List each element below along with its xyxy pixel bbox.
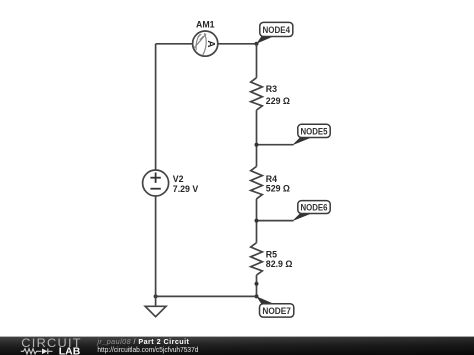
svg-text:NODE6: NODE6 (301, 202, 328, 212)
label V2 value (173, 174, 199, 194)
svg-text:R4: R4 (266, 174, 277, 184)
junction dot NODE4 (255, 42, 259, 46)
wire top-right horizontal (218, 43, 257, 45)
node NODE7 flag (256, 296, 294, 317)
node NODE5 flag (257, 124, 331, 145)
junction dot NODE6 (255, 219, 259, 223)
label R5 value (266, 249, 293, 269)
resistor R5 (251, 243, 263, 275)
wire right vertical above R3 (256, 44, 258, 78)
wire right vertical below R3 (256, 110, 258, 166)
wire bottom horizontal (156, 295, 257, 297)
svg-text:529 Ω: 529 Ω (266, 184, 290, 194)
ammeter AM1 (193, 31, 218, 56)
junction dot R5 bottom terminal (255, 282, 259, 286)
svg-text:7.29 V: 7.29 V (173, 184, 199, 194)
svg-text:jr_paul08 / Part 2 Circuit: jr_paul08 / Part 2 Circuit (96, 337, 189, 346)
svg-text:AM1: AM1 (196, 19, 215, 29)
svg-text:NODE7: NODE7 (262, 306, 291, 316)
resistor R3 (251, 78, 263, 110)
svg-text:NODE4: NODE4 (263, 25, 291, 35)
junction dot NODE5 (255, 143, 259, 147)
svg-text:NODE5: NODE5 (301, 126, 328, 136)
node NODE4 flag (256, 22, 293, 43)
resistor R4 (251, 166, 263, 198)
logo resistor-diode glyph (21, 349, 53, 355)
svg-text:A: A (205, 40, 216, 47)
footer bar (0, 337, 474, 355)
svg-text:R3: R3 (266, 84, 277, 94)
wire right vertical below R5 (256, 275, 258, 296)
voltage source V2 (143, 170, 169, 196)
svg-text:V2: V2 (173, 174, 184, 184)
node NODE6 flag (257, 201, 331, 222)
label R3 value (266, 84, 290, 106)
wire right vertical below R4 (256, 199, 258, 243)
wire left vertical below V2 (155, 196, 157, 296)
ground (145, 296, 166, 316)
svg-text:R5: R5 (266, 249, 277, 259)
svg-text:229 Ω: 229 Ω (266, 96, 290, 106)
wire top-left horizontal (156, 43, 193, 45)
junction dot NODE7 corner (255, 294, 259, 298)
svg-text:LAB: LAB (59, 346, 81, 355)
svg-text:http://circuitlab.com/c5jcfvuh: http://circuitlab.com/c5jcfvuh7537d (97, 347, 198, 354)
svg-text:82.9 Ω: 82.9 Ω (266, 259, 293, 269)
junction dot ground (154, 294, 158, 298)
wire left vertical above V2 (155, 44, 157, 170)
label R4 value (266, 174, 290, 194)
